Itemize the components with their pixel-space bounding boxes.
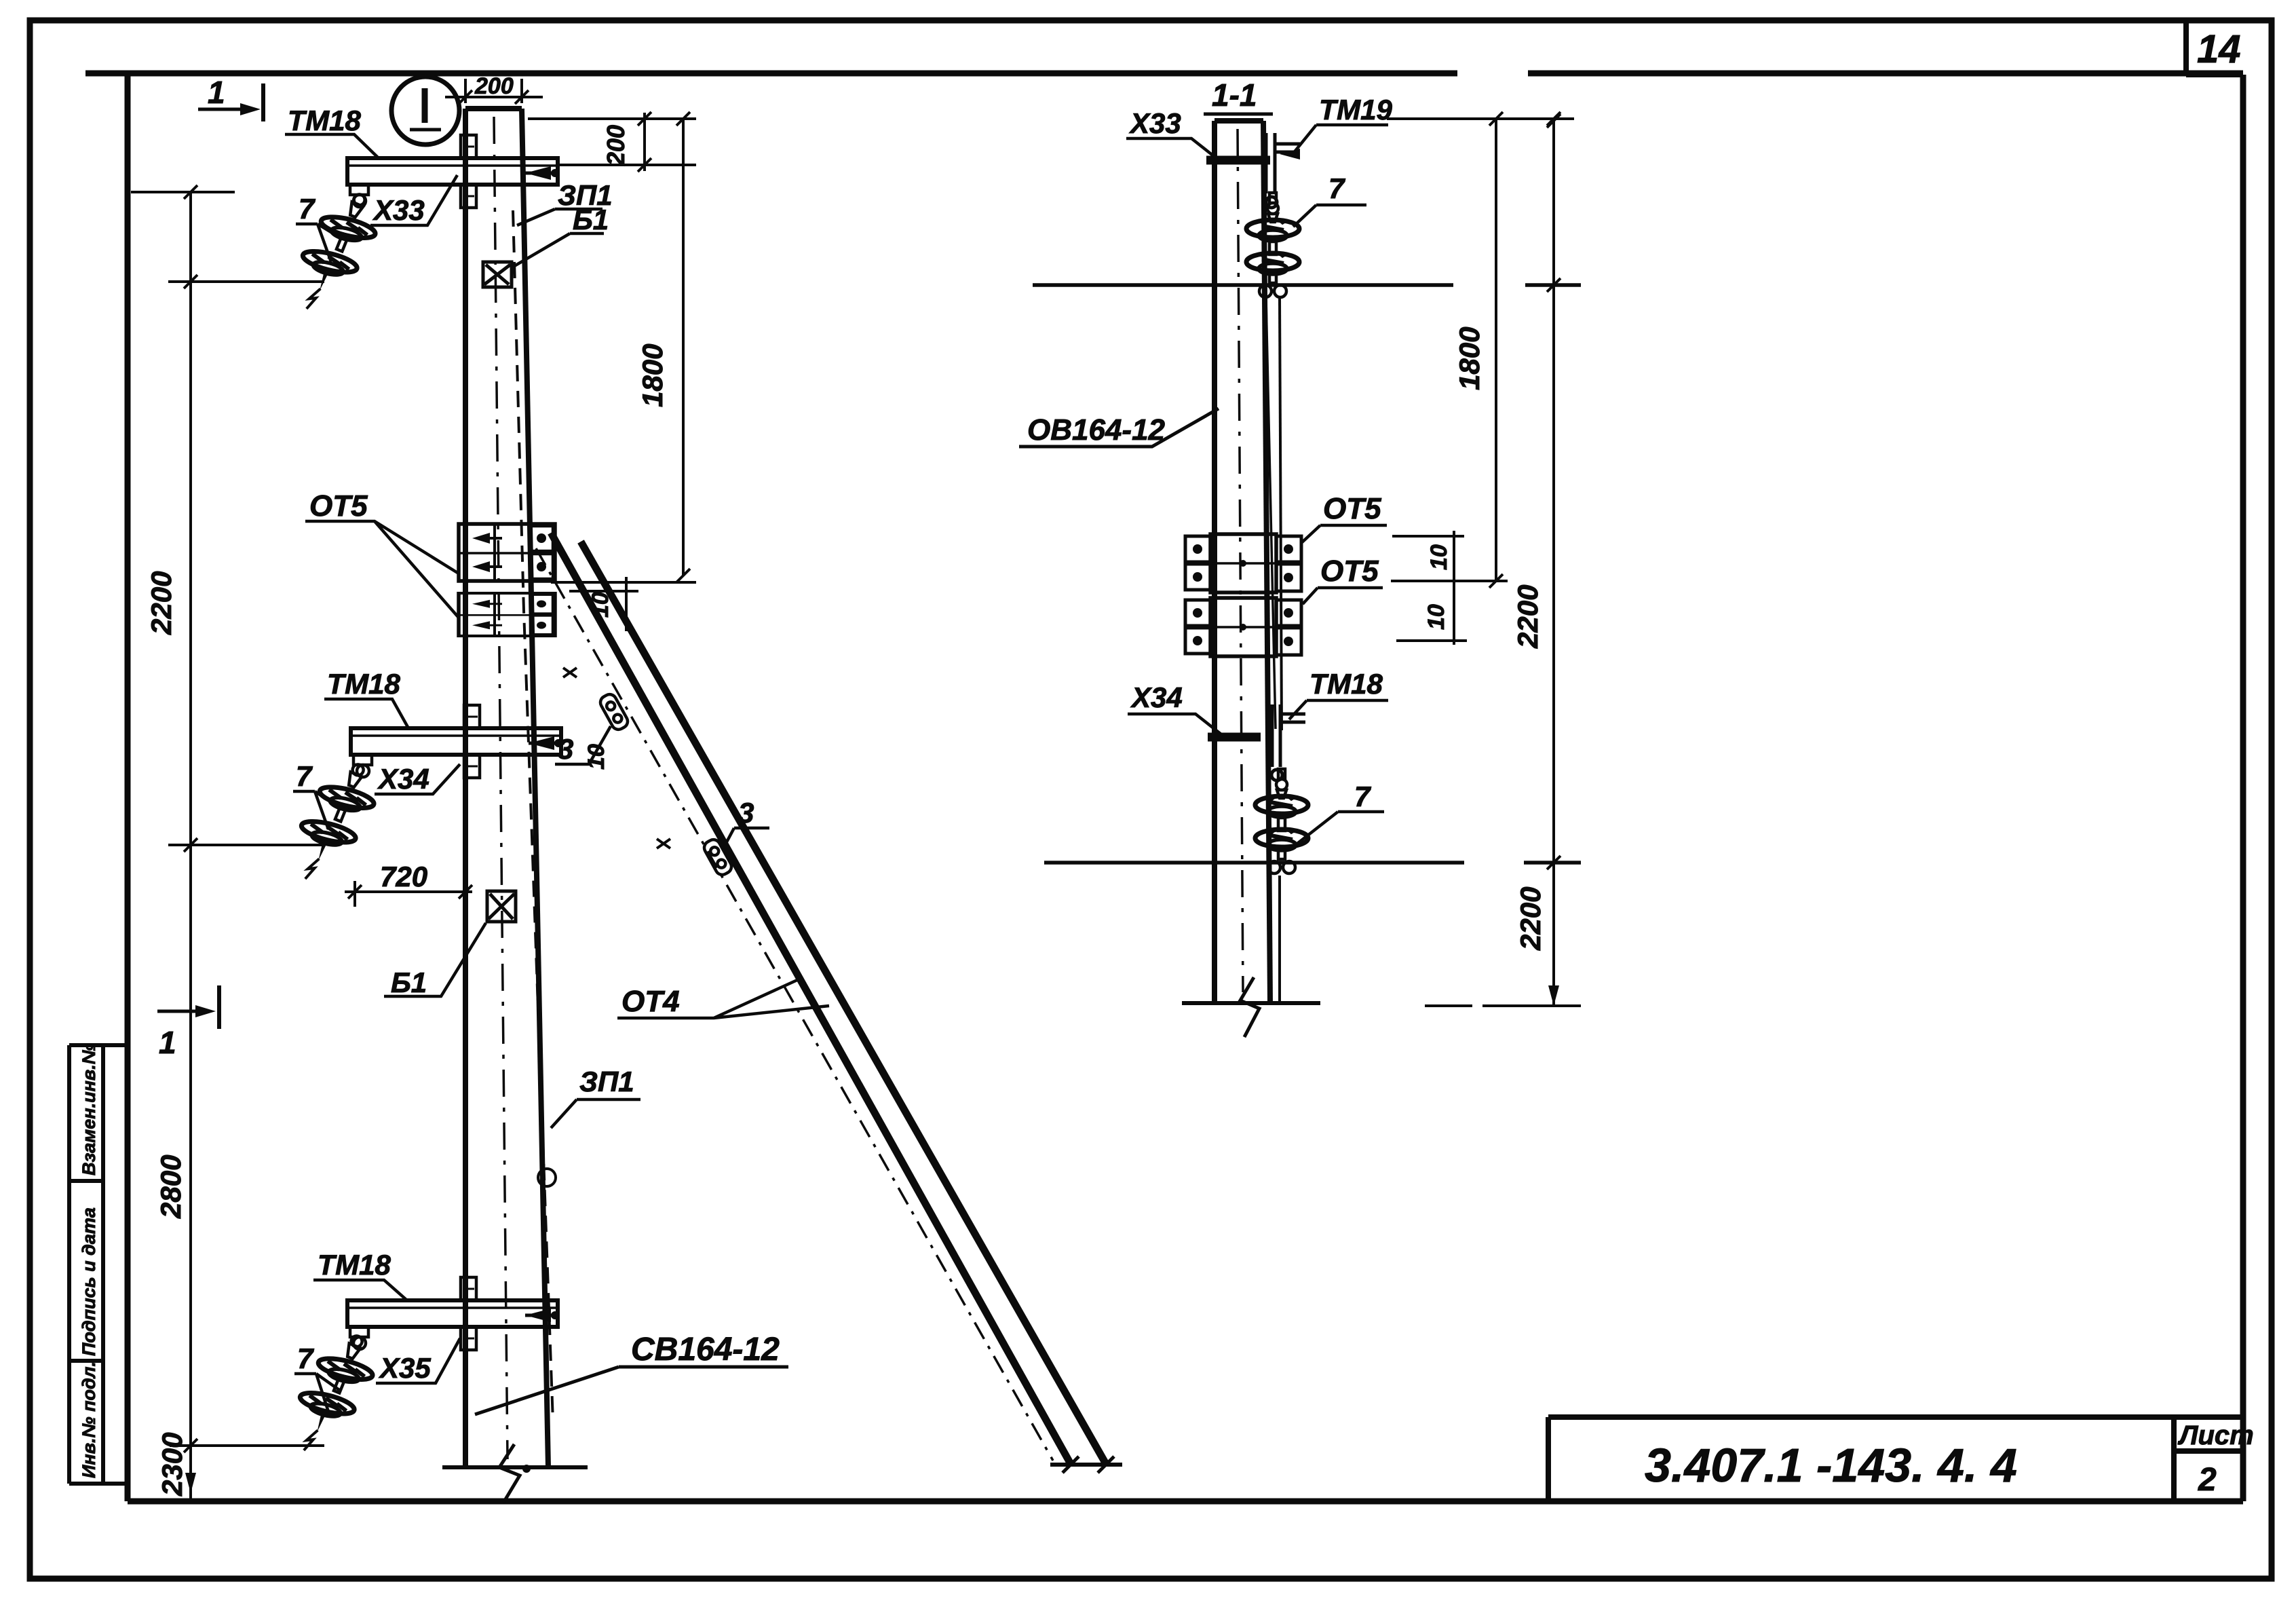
label ЗП1 #1 [517,179,613,225]
svg-text:2200: 2200 [145,571,177,635]
label TM18 #1 [285,105,379,158]
svg-text:X34: X34 [377,763,429,795]
strut clamp 3 #2 [702,838,733,878]
pole (front view) [465,109,548,1467]
svg-text:1800: 1800 [1453,327,1485,390]
section mark 1 top [198,83,263,121]
svg-text:X34: X34 [1130,681,1183,713]
insulator string right #2 [1255,769,1308,873]
svg-text:ТМ18: ТМ18 [288,105,362,136]
label X34 [375,763,460,795]
label 3 #2 [723,797,769,848]
svg-text:200: 200 [602,125,630,166]
svg-text:ОТ5: ОТ5 [1323,492,1381,525]
grounding plate Б1 box #2 [487,891,516,922]
pole (section view) [1214,121,1270,1002]
pole mark circle I [391,77,459,145]
svg-text:1800: 1800 [636,344,668,407]
svg-text:ТМ18: ТМ18 [327,668,401,700]
svg-text:10: 10 [1423,604,1449,630]
svg-text:200: 200 [474,73,514,99]
label ОТ4 [617,980,829,1018]
svg-text:СВ164-12: СВ164-12 [631,1332,780,1368]
svg-text:Лист: Лист [2177,1421,2254,1450]
label ОТ5 right #2 [1303,554,1383,604]
svg-text:7: 7 [296,760,313,792]
grounding plate Б1 box #1 [483,262,512,287]
pole axis dash (section) [1238,129,1243,992]
dim 200 right vertical [528,112,696,172]
svg-text:X35: X35 [379,1352,431,1384]
label 7 #3 [294,1342,339,1412]
bracket TM19 (crossarm end-on) [1266,133,1300,208]
svg-text:Подпись и дата: Подпись и дата [79,1207,99,1356]
label Б1 #1 [514,204,609,266]
label 3 #1 [555,726,611,765]
label OT5 left [305,489,459,618]
svg-text:ОТ5: ОТ5 [1320,554,1379,588]
left dim chain [131,185,324,1499]
pole bottom break (section) [1182,977,1320,1037]
svg-text:Б1: Б1 [573,204,609,236]
label X35 [376,1338,460,1384]
clamp band X34 [1208,733,1261,742]
dim 720 [345,881,472,907]
label ЗП1 #2 [551,1066,640,1128]
svg-text:ТМ18: ТМ18 [318,1249,391,1281]
strut OT4 main lines [551,533,1122,1473]
label 7 right #2 [1295,780,1384,846]
strut clamp 3 #1 [598,692,630,732]
svg-text:2300: 2300 [156,1433,188,1497]
dims 10/10 right [1391,531,1508,645]
bottom extension right [1425,1004,1581,1007]
clamp OT5 right lower [1185,598,1301,656]
svg-text:ОТ4: ОТ4 [621,985,680,1018]
svg-text:3: 3 [558,733,573,765]
label X33 [370,175,457,226]
svg-text:X33: X33 [1129,107,1181,139]
svg-text:X33: X33 [372,194,425,226]
clamp OT5 right upper [1185,534,1301,592]
strut x-marks [563,668,670,848]
clamp OT5 upper (front) [459,524,555,581]
crossarm TM18 #3 [347,1277,559,1350]
svg-text:10: 10 [583,744,609,770]
insulator string right #1 [1246,193,1299,297]
label 7 right #1 [1293,172,1366,227]
section mark 1 bottom [157,985,219,1029]
left stamp column [69,1045,128,1484]
svg-text:ОТ5: ОТ5 [309,489,368,523]
crossarm TM18 #2 [351,705,562,778]
grounding conductor ЗП1 dashed [513,210,553,1422]
insulator string 7 #1 [284,183,388,323]
label TM19 [1280,94,1393,159]
label ОТ5 right #1 [1301,492,1387,543]
dim 1800 right [1387,112,1574,581]
svg-text:7: 7 [297,1342,314,1374]
dim 200 pole top [445,79,543,104]
svg-text:1: 1 [159,1025,176,1060]
insulator string 7 #2 [282,753,387,893]
svg-text:7: 7 [1328,172,1345,204]
crossarm TM18 #1 [347,135,559,208]
label X34 right [1128,681,1221,734]
svg-text:7: 7 [299,193,315,225]
svg-text:Инв.№ подл.: Инв.№ подл. [79,1361,99,1478]
svg-text:1-1: 1-1 [1212,77,1257,113]
clamp band X33 [1206,156,1270,165]
svg-text:Взамен.инв.№: Взамен.инв.№ [79,1043,99,1175]
label TM18 right [1289,668,1388,719]
pole axis dash line [494,117,508,1459]
label TM18 #3 [313,1249,407,1300]
conductor level line 1 [1033,278,1581,292]
label Б1 #2 [384,923,486,998]
svg-text:7: 7 [1354,780,1371,812]
bracket TM18 end-on lower [1271,704,1305,780]
pole bottom break [442,1444,588,1503]
strut grounding dash line [536,548,1053,1461]
svg-text:720: 720 [380,861,427,892]
ЗП1 splice circle [538,1169,556,1186]
label 7 #2 [293,760,339,829]
svg-text:ТМ18: ТМ18 [1309,668,1383,700]
conductor level line 2 [1044,861,1581,865]
svg-text:3: 3 [738,797,754,829]
label СВ164-12 [475,1332,788,1414]
svg-text:2: 2 [2198,1462,2217,1498]
title block [1548,1417,2243,1501]
label ОВ164-12 [1019,409,1219,447]
wire below string 2 [1278,876,1281,1003]
section title 1-1 [1204,77,1273,114]
label TM18 #2 [324,668,408,728]
svg-text:ЗП1: ЗП1 [579,1066,634,1097]
dim 10 gap upper [569,577,638,631]
svg-text:ТМ19: ТМ19 [1319,94,1393,126]
svg-text:10: 10 [1426,544,1452,570]
label 7 #1 [296,193,342,262]
jumper wire below string 1 [1280,299,1282,730]
sheet number box 14 [2186,22,2243,75]
svg-text:Б1: Б1 [391,966,427,998]
svg-text:2200: 2200 [1512,585,1544,649]
svg-text:2200: 2200 [1514,887,1546,951]
clamp OT5 lower (front) [459,593,555,636]
svg-text:3.407.1 -143. 4. 4: 3.407.1 -143. 4. 4 [1645,1439,2017,1492]
dim 1800 left view [551,112,696,582]
svg-text:2800: 2800 [155,1155,187,1219]
dim chain 2200 right [1547,114,1561,1006]
svg-text:1: 1 [208,75,225,110]
label X33 right [1126,107,1217,159]
svg-text:14: 14 [2197,27,2241,71]
svg-text:ОВ164-12: ОВ164-12 [1027,413,1166,447]
insulator string 7 #3 [281,1324,385,1465]
